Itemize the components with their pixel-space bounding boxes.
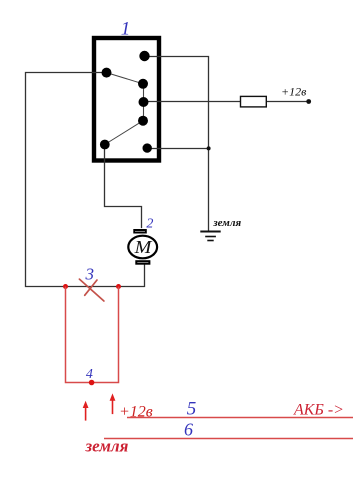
ground symbol bbox=[200, 232, 220, 241]
red arrow left bbox=[83, 401, 89, 421]
red node 4 bbox=[89, 380, 95, 386]
svg-text:3: 3 bbox=[84, 265, 94, 284]
wire from pin D1 right and down to ground bbox=[145, 57, 209, 232]
wire from pin D6 down to motor bbox=[105, 145, 142, 229]
junction node bbox=[207, 146, 211, 150]
wire from motor bottom down to switch line bbox=[144, 265, 146, 288]
svg-text:земля: земля bbox=[212, 217, 241, 229]
pin D4 bbox=[139, 97, 149, 107]
red node left on switch line bbox=[63, 284, 68, 289]
pin D7 bbox=[143, 143, 152, 152]
motor M body bbox=[128, 236, 157, 259]
svg-text:АКБ ->: АКБ -> bbox=[293, 402, 344, 419]
red loop wires bbox=[66, 287, 119, 383]
contact link D3-D5 bbox=[143, 84, 145, 121]
pin D6 bbox=[100, 140, 110, 150]
svg-text:6: 6 bbox=[184, 420, 193, 440]
wire 5 (AKB line) bbox=[127, 417, 353, 419]
svg-text:4: 4 bbox=[86, 367, 93, 382]
svg-text:+12в: +12в bbox=[281, 85, 306, 99]
motor M bottom brush bbox=[136, 261, 149, 264]
motor M top brush bbox=[134, 230, 146, 233]
contact link D2-D3 bbox=[107, 73, 144, 84]
resistor R1 bbox=[241, 96, 267, 107]
relay block U1 bbox=[94, 38, 159, 161]
+12v terminal node bbox=[306, 99, 311, 104]
switch X mark bbox=[79, 279, 104, 301]
wire from pin D2 left and down to switch line bbox=[26, 73, 145, 287]
wire 6 (ground line) bbox=[104, 438, 353, 440]
red arrow right bbox=[110, 393, 116, 414]
pin D1 bbox=[139, 51, 149, 61]
svg-text:5: 5 bbox=[187, 399, 197, 420]
svg-text:2: 2 bbox=[146, 217, 153, 232]
contact link D5-D6 bbox=[105, 121, 143, 145]
pin D5 bbox=[138, 116, 148, 126]
svg-text:земля: земля bbox=[85, 437, 129, 456]
red node right on switch line bbox=[116, 284, 121, 289]
wire from pin D7 to junction bbox=[147, 148, 209, 150]
svg-text:M: M bbox=[134, 238, 153, 258]
pin D3 bbox=[138, 79, 148, 89]
wire from pin D4 right to +12v terminal bbox=[144, 101, 309, 103]
pin D2 bbox=[102, 68, 112, 78]
